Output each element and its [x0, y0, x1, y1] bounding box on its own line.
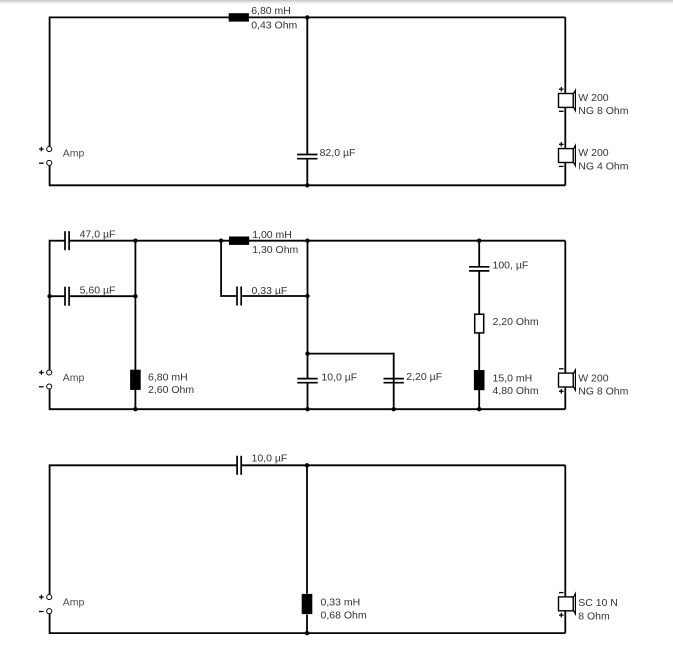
resistor R1 2,20 Ohm	[475, 314, 484, 333]
label LS3	[578, 372, 628, 397]
wire middle vertical branch lower	[307, 383, 309, 410]
wire right rail circuit 3 lower	[564, 611, 566, 633]
capacitor C4 0,33 uF	[237, 287, 241, 306]
svg-text:10,0 µF: 10,0 µF	[321, 371, 357, 383]
wire top rail circuit 1	[50, 16, 566, 18]
amp source circuit 2	[39, 370, 84, 389]
svg-text:0,33 µF: 0,33 µF	[252, 285, 288, 297]
wire left rail circuit 2 upper	[49, 240, 51, 370]
wire bottom rail circuit 1	[50, 184, 566, 186]
junction 0,33 branch / middle vertical	[305, 294, 309, 298]
svg-text:W 200: W 200	[578, 372, 609, 384]
svg-text:SC 10 N: SC 10 N	[578, 597, 618, 609]
speaker LS2 W 200 NG 4 Ohm	[559, 142, 576, 166]
svg-text:2,60 Ohm: 2,60 Ohm	[148, 384, 194, 396]
inductor L4 15,0 mH	[474, 370, 485, 390]
svg-text:NG 8 Ohm: NG 8 Ohm	[578, 386, 628, 398]
inductor L1 6,80 mH	[229, 13, 249, 21]
wire RCL branch seg2	[478, 271, 480, 314]
label LS1	[578, 92, 628, 117]
junction bottom rail / middle branch c3	[305, 631, 309, 635]
wire branch 5,60 uF horizontal right of C3	[69, 295, 135, 297]
wire bottom rail circuit 2	[50, 408, 566, 410]
wire left rail circuit 1 lower	[49, 166, 51, 187]
wire right rail circuit 2 lower	[564, 387, 566, 409]
wire right rail circuit 1 upper	[564, 17, 566, 93]
wire RCL branch seg1	[478, 241, 480, 267]
svg-text:1,30 Ohm: 1,30 Ohm	[252, 244, 298, 256]
junction bottom rail / branch 394	[392, 407, 396, 411]
wire left rail circuit 3 lower	[49, 614, 51, 634]
wire left rail circuit 2 lower	[49, 389, 51, 410]
wire left rail circuit 3 upper	[49, 464, 51, 594]
junction branch135 / 5,60 branch	[133, 294, 137, 298]
junction top rail / branch 307	[305, 239, 309, 243]
capacitor C5 10,0 uF	[297, 379, 317, 383]
wire top rail circuit 2 right of C2	[69, 240, 565, 242]
inductor L3 6,80 mH vertical	[130, 370, 141, 390]
wire 0,33 uF branch horizontal right of C4	[241, 295, 307, 297]
svg-text:2,20 Ohm: 2,20 Ohm	[493, 316, 539, 328]
wire right rail circuit 3 upper	[564, 465, 566, 597]
wire 2,20 uF branch vertical	[393, 353, 395, 410]
wire middle vertical branch upper	[307, 241, 309, 379]
svg-text:Amp: Amp	[63, 372, 85, 384]
label LS4	[578, 597, 618, 623]
wire branch 5,60 uF horizontal left of C3	[50, 295, 65, 297]
junction bottom rail / C1 branch	[305, 183, 309, 187]
label L4 values	[493, 373, 539, 397]
svg-text:82,0 µF: 82,0 µF	[320, 147, 356, 159]
wire lower middle branch horizontal	[308, 353, 394, 355]
capacitor C8 10,0 uF	[237, 456, 241, 475]
wire middle branch circuit 3 upper	[306, 465, 308, 594]
wire left rail circuit 1 upper	[49, 17, 51, 147]
capacitor C1 82,0 uF	[297, 155, 317, 159]
svg-text:Amp: Amp	[63, 597, 85, 609]
wire top rail circuit 3 right of C8	[241, 464, 565, 466]
svg-text:NG 8 Ohm: NG 8 Ohm	[578, 105, 628, 117]
label L2 values	[252, 229, 298, 256]
svg-text:4,80 Ohm: 4,80 Ohm	[493, 385, 539, 397]
junction bottom rail / branch 135	[133, 407, 137, 411]
svg-text:1,00 mH: 1,00 mH	[252, 229, 292, 241]
svg-text:0,68 Ohm: 0,68 Ohm	[321, 609, 367, 621]
wire middle branch circuit 3 lower	[306, 615, 308, 634]
amp source circuit 3	[39, 595, 84, 614]
junction bottom rail / branch 307	[305, 407, 309, 411]
wire right rail circuit 2 upper	[564, 241, 566, 373]
junction top rail / branch 479	[477, 239, 481, 243]
capacitor C6 2,20 uF	[384, 379, 404, 383]
capacitor C7 100 uF	[469, 267, 489, 271]
svg-text:47,0 µF: 47,0 µF	[80, 229, 116, 241]
svg-text:W 200: W 200	[578, 147, 609, 159]
svg-text:6,80 mH: 6,80 mH	[148, 372, 188, 384]
label L3 values	[148, 372, 194, 396]
wire RCL branch seg3	[478, 333, 480, 370]
label L1 values	[251, 5, 297, 32]
wire top rail circuit 2 left of C2	[50, 240, 65, 242]
junction top rail / C1 branch	[305, 15, 309, 19]
inductor L2 1,00 mH	[229, 237, 249, 245]
svg-text:100, µF: 100, µF	[493, 260, 529, 272]
toolbar bottom edge shading at top	[0, 0, 673, 2]
label LS2	[578, 147, 628, 173]
wire 0,33 uF branch horizontal left of C4	[220, 295, 237, 297]
junction top rail / branch 221	[219, 239, 223, 243]
wire vertical branch at 135	[134, 241, 136, 410]
junction left rail / 5,60 branch	[47, 294, 51, 298]
speaker LS3 W 200 NG 8 Ohm	[559, 369, 576, 394]
capacitor C2 47,0 uF	[65, 231, 69, 250]
speaker LS1 W 200 NG 8 Ohm	[559, 87, 576, 111]
svg-text:8 Ohm: 8 Ohm	[578, 610, 610, 622]
junction bottom rail / branch 479	[477, 407, 481, 411]
wire wire between speakers LS1 LS2	[564, 107, 566, 148]
capacitor C3 5,60 uF	[65, 287, 69, 306]
wire top rail circuit 3 left of C8	[50, 464, 238, 466]
svg-text:5,60 µF: 5,60 µF	[80, 285, 116, 297]
junction middle vertical / lower branch	[305, 351, 309, 355]
svg-text:2,20 µF: 2,20 µF	[406, 371, 442, 383]
svg-text:15,0 mH: 15,0 mH	[493, 373, 533, 385]
wire capacitor C1 branch upper	[306, 17, 308, 154]
svg-text:Amp: Amp	[63, 147, 85, 159]
speaker LS4 SC 10 N 8 Ohm	[559, 593, 576, 618]
svg-text:10,0 µF: 10,0 µF	[252, 453, 288, 465]
wire RCL branch seg4	[478, 390, 480, 409]
svg-text:0,43 Ohm: 0,43 Ohm	[251, 20, 297, 32]
svg-text:NG 4 Ohm: NG 4 Ohm	[578, 160, 628, 172]
svg-text:0,33 mH: 0,33 mH	[321, 597, 361, 609]
junction top rail / branch 135	[133, 239, 137, 243]
wire right rail circuit 1 lower	[564, 162, 566, 185]
inductor L5 0,33 mH	[302, 594, 313, 614]
svg-text:W 200: W 200	[578, 92, 609, 104]
wire capacitor C1 branch lower	[306, 159, 308, 186]
label L5 values	[321, 597, 367, 622]
svg-text:6,80 mH: 6,80 mH	[251, 5, 291, 17]
wire 0,33 uF branch vertical left	[220, 241, 222, 296]
wire bottom rail circuit 3	[50, 632, 566, 634]
junction top rail / middle branch c3	[305, 463, 309, 467]
amp source circuit 1	[39, 147, 84, 166]
